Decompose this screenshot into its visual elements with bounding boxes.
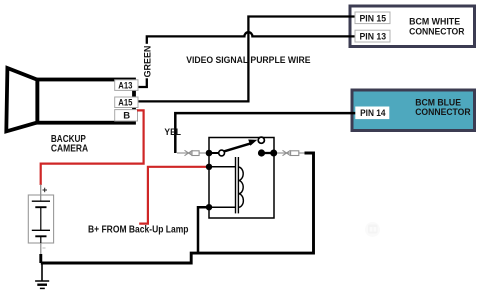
svg-text:B+ FROM Back-Up Lamp: B+ FROM Back-Up Lamp bbox=[88, 224, 189, 235]
svg-text:A13: A13 bbox=[118, 80, 132, 91]
svg-text:YEL: YEL bbox=[164, 127, 181, 138]
svg-text:CONNECTOR: CONNECTOR bbox=[409, 27, 465, 37]
svg-text:CONNECTOR: CONNECTOR bbox=[415, 107, 471, 117]
svg-text:PIN 13: PIN 13 bbox=[360, 32, 387, 42]
svg-text:BCM BLUE: BCM BLUE bbox=[415, 97, 461, 107]
svg-text:PIN 15: PIN 15 bbox=[360, 13, 387, 23]
svg-text:CAMERA: CAMERA bbox=[51, 143, 88, 154]
svg-text:BCM WHITE: BCM WHITE bbox=[409, 17, 460, 27]
svg-text:GREEN: GREEN bbox=[143, 46, 154, 78]
svg-text:A15: A15 bbox=[118, 97, 133, 108]
svg-text:VIDEO SIGNAL PURPLE WIRE: VIDEO SIGNAL PURPLE WIRE bbox=[186, 55, 311, 66]
svg-text:PIN 14: PIN 14 bbox=[360, 108, 385, 118]
svg-text:B: B bbox=[123, 111, 130, 122]
